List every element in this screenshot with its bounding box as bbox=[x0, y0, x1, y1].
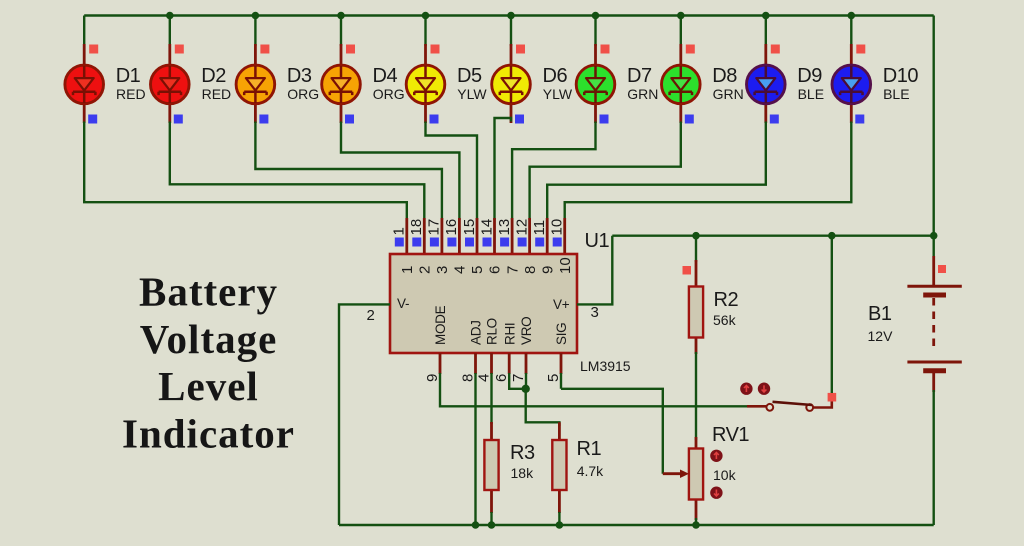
blue pin square at pin 18 bbox=[412, 238, 421, 247]
svg-text:1: 1 bbox=[391, 227, 408, 235]
svg-text:R1: R1 bbox=[577, 438, 602, 460]
svg-text:D10: D10 bbox=[883, 65, 919, 87]
svg-text:MODE: MODE bbox=[433, 305, 448, 345]
svg-text:5: 5 bbox=[545, 374, 562, 382]
wire: rail to LED D7 anode bbox=[594, 16, 596, 47]
wire: rail to LED D5 anode bbox=[424, 16, 426, 47]
svg-text:GRN: GRN bbox=[627, 86, 658, 102]
svg-text:V+: V+ bbox=[553, 297, 570, 312]
svg-text:10: 10 bbox=[549, 219, 566, 236]
svg-text:D1: D1 bbox=[116, 65, 141, 87]
svg-text:12: 12 bbox=[513, 219, 530, 236]
node: R3 at ground rail bbox=[488, 521, 496, 529]
svg-text:8: 8 bbox=[522, 266, 539, 274]
svg-text:R2: R2 bbox=[714, 289, 739, 311]
battery B1 12V bbox=[907, 256, 961, 392]
svg-text:7: 7 bbox=[510, 374, 527, 382]
node: R1 at ground rail bbox=[556, 521, 564, 529]
svg-text:12V: 12V bbox=[868, 328, 894, 344]
IC pin stub 9 (bottom, MODE) bbox=[439, 353, 442, 374]
wire: R2 bottom to RV1 top bbox=[695, 352, 697, 440]
wire: right vertical from top rail down to V+ rail bbox=[933, 16, 935, 236]
wire: LED D10 cathode to IC pin column bbox=[565, 122, 852, 221]
IC pin stub 4 (bottom, RLO) bbox=[490, 353, 493, 374]
wire: rail to LED D10 anode bbox=[850, 16, 852, 47]
svg-text:D6: D6 bbox=[543, 65, 568, 87]
wire: VRO pin 7 down to node bbox=[525, 373, 527, 389]
wire: RV1 to ground rail bbox=[695, 518, 697, 525]
svg-text:14: 14 bbox=[478, 219, 495, 236]
svg-text:4.7k: 4.7k bbox=[577, 463, 604, 479]
node: V+ rail at R2 bbox=[692, 232, 700, 240]
IC pin stub 8 (bottom, ADJ) bbox=[474, 353, 477, 374]
red pin square at battery top bbox=[938, 265, 946, 273]
switch SW (mode select) bbox=[747, 399, 832, 411]
red pin square above D9 bbox=[771, 45, 780, 54]
node: top rail junction at D9 bbox=[762, 12, 770, 20]
blue pin square below D5 bbox=[430, 115, 439, 124]
wire: R1 to ground rail bbox=[558, 512, 560, 525]
wire: V+ horizontal rail bbox=[612, 234, 933, 236]
RV1 actuator button up bbox=[710, 450, 722, 462]
IC pin stub 17 (top) bbox=[440, 218, 443, 254]
red pin square above D10 bbox=[856, 45, 865, 54]
LED D9 BLE bbox=[747, 44, 786, 123]
svg-text:16: 16 bbox=[443, 219, 460, 236]
LED D2 RED bbox=[151, 44, 190, 123]
node: top rail junction at D7 bbox=[592, 12, 600, 20]
svg-text:U1: U1 bbox=[585, 230, 610, 252]
blue pin square at pin 11 bbox=[535, 238, 544, 247]
IC pin stub 10 (top) bbox=[563, 218, 566, 254]
LED D8 GRN bbox=[662, 44, 701, 123]
LED D6 YLW bbox=[492, 44, 531, 123]
svg-text:VRO: VRO bbox=[519, 317, 534, 345]
IC pin stub 7 (bottom, VRO) bbox=[525, 353, 528, 374]
wire: ADJ pin 8 to ground rail bbox=[474, 373, 476, 525]
node: ADJ at ground rail bbox=[472, 521, 480, 529]
blue pin square below D2 bbox=[174, 115, 183, 124]
svg-text:RLO: RLO bbox=[485, 318, 500, 345]
blue pin square below D10 bbox=[855, 115, 864, 124]
wire: rail to LED D1 anode bbox=[83, 16, 85, 47]
wire: V- pin 2 to ground rail bbox=[339, 304, 390, 525]
wire: V+ rail down to R2 bbox=[695, 236, 697, 262]
svg-text:11: 11 bbox=[531, 220, 548, 236]
svg-text:9: 9 bbox=[539, 266, 556, 274]
resistor R3 18k bbox=[484, 422, 498, 513]
svg-text:D8: D8 bbox=[712, 65, 737, 87]
svg-text:D3: D3 bbox=[287, 65, 312, 87]
IC pin stub 1 (top) bbox=[405, 218, 408, 254]
svg-text:Battery: Battery bbox=[139, 269, 278, 315]
wire: VRO node down to R1 bbox=[526, 389, 560, 426]
IC pin stub 5 (bottom, SIG) bbox=[560, 353, 563, 374]
wire: LED D4 cathode to IC pin column bbox=[341, 122, 459, 221]
LED D4 ORG bbox=[322, 44, 361, 123]
node: top rail junction at D3 bbox=[252, 12, 260, 20]
wire: battery to ground rail bbox=[933, 390, 935, 525]
svg-text:SIG: SIG bbox=[554, 323, 569, 345]
blue pin square below D1 bbox=[88, 115, 97, 124]
svg-text:RHI: RHI bbox=[502, 323, 517, 345]
node: VRO/RHI junction bbox=[522, 385, 530, 393]
IC pin stub 11 (top) bbox=[546, 218, 549, 254]
svg-text:6: 6 bbox=[487, 266, 504, 274]
red pin square above D2 bbox=[175, 45, 184, 54]
wire: RHI pin 6 to VRO node bbox=[509, 373, 526, 389]
svg-text:56k: 56k bbox=[713, 312, 737, 328]
svg-text:10: 10 bbox=[557, 257, 574, 274]
blue pin square below D4 bbox=[345, 115, 354, 124]
node: top rail junction at D10 bbox=[848, 12, 856, 20]
node: V+ rail at switch column bbox=[828, 232, 836, 240]
svg-text:18: 18 bbox=[408, 219, 425, 236]
wire: rail to LED D2 anode bbox=[169, 16, 171, 47]
wire: V+ pin 3 up to V+ rail bbox=[577, 236, 612, 305]
wire: rail to LED D8 anode bbox=[680, 16, 682, 47]
wire: V+ rail down to battery bbox=[933, 236, 935, 258]
svg-text:D7: D7 bbox=[627, 65, 652, 87]
svg-text:3: 3 bbox=[591, 304, 599, 321]
svg-text:D5: D5 bbox=[457, 65, 482, 87]
LED D1 RED bbox=[65, 44, 104, 123]
svg-text:3: 3 bbox=[434, 266, 451, 274]
IC pin stub 6 (bottom, RHI) bbox=[508, 353, 511, 374]
wire: top anode rail from D1 to right corner bbox=[84, 14, 934, 16]
resistor R1 4.7k bbox=[552, 422, 566, 513]
svg-text:10k: 10k bbox=[713, 467, 737, 483]
IC pin stub 14 (top) bbox=[493, 218, 496, 254]
node: top rail junction at D4 bbox=[337, 12, 345, 20]
red pin square above D5 bbox=[431, 45, 440, 54]
wire: rail to LED D3 anode bbox=[254, 16, 256, 47]
wire: MODE pin 9 to switch bbox=[440, 373, 747, 406]
red pin square above D1 bbox=[89, 45, 98, 54]
node: RV1 at ground rail bbox=[692, 521, 700, 529]
svg-text:YLW: YLW bbox=[457, 86, 487, 102]
LED D5 YLW bbox=[406, 44, 445, 123]
blue pin square at pin 12 bbox=[518, 238, 527, 247]
blue pin square at pin 17 bbox=[430, 238, 439, 247]
red pin square above D4 bbox=[346, 45, 355, 54]
blue pin square at pin 13 bbox=[500, 238, 509, 247]
LED D10 BLE bbox=[832, 44, 871, 123]
RV1 actuator button down bbox=[710, 487, 722, 499]
red pin square above D8 bbox=[686, 45, 695, 54]
svg-text:ADJ: ADJ bbox=[469, 320, 484, 345]
blue pin square below D7 bbox=[600, 115, 609, 124]
svg-text:BLE: BLE bbox=[798, 86, 824, 102]
svg-text:7: 7 bbox=[504, 266, 521, 274]
blue pin square below D8 bbox=[685, 115, 694, 124]
svg-text:V-: V- bbox=[397, 296, 409, 311]
svg-text:ORG: ORG bbox=[373, 86, 405, 102]
svg-text:Voltage: Voltage bbox=[140, 316, 278, 362]
svg-text:BLE: BLE bbox=[883, 86, 909, 102]
wire: LED D3 cathode to IC pin column bbox=[255, 122, 442, 221]
node: top rail junction at D2 bbox=[166, 12, 174, 20]
svg-text:RED: RED bbox=[202, 86, 232, 102]
IC pin stub 16 (top) bbox=[458, 218, 461, 254]
svg-text:D4: D4 bbox=[373, 65, 398, 87]
blue pin square below D3 bbox=[259, 115, 268, 124]
blue pin square below D6 bbox=[515, 115, 524, 124]
node: top rail junction at D6 bbox=[507, 12, 515, 20]
node: top rail junction at D8 bbox=[677, 12, 685, 20]
LED D3 ORG bbox=[236, 44, 275, 123]
wire: SIG pin 5 to RV1 wiper bbox=[561, 373, 663, 474]
svg-text:RV1: RV1 bbox=[712, 424, 749, 446]
svg-text:B1: B1 bbox=[868, 303, 892, 325]
IC pin stub 13 (top) bbox=[511, 218, 514, 254]
blue pin square at pin 10 bbox=[553, 238, 562, 247]
blue pin square at pin 15 bbox=[465, 238, 474, 247]
svg-text:D2: D2 bbox=[201, 65, 226, 87]
svg-text:ORG: ORG bbox=[287, 86, 319, 102]
svg-text:17: 17 bbox=[426, 219, 443, 236]
svg-text:D9: D9 bbox=[797, 65, 822, 87]
red pin square at R2 top bbox=[683, 266, 692, 275]
node: V+ rail at battery column bbox=[930, 232, 938, 240]
svg-text:GRN: GRN bbox=[713, 86, 744, 102]
IC pin stub 15 (top) bbox=[476, 218, 479, 254]
wire: bottom ground rail bbox=[339, 524, 934, 526]
op-amp / IC U1 LM3915 body bbox=[390, 254, 577, 353]
resistor R2 56k bbox=[689, 260, 703, 354]
red pin square above D3 bbox=[260, 45, 269, 54]
red pin square at switch output bbox=[828, 393, 837, 402]
red pin square above D6 bbox=[516, 45, 525, 54]
svg-text:YLW: YLW bbox=[543, 86, 573, 102]
title text: Battery Voltage Level Indicator bbox=[122, 269, 295, 457]
svg-text:9: 9 bbox=[424, 374, 441, 382]
switch actuator button right bbox=[758, 383, 770, 395]
svg-text:1: 1 bbox=[399, 266, 416, 274]
wire: LED D8 cathode to IC pin column bbox=[530, 122, 681, 221]
svg-text:Level: Level bbox=[158, 363, 259, 409]
IC pin stub 18 (top) bbox=[423, 218, 426, 254]
svg-text:RED: RED bbox=[116, 86, 146, 102]
wire: rail to LED D6 anode bbox=[510, 16, 512, 47]
svg-text:18k: 18k bbox=[511, 465, 535, 481]
IC pin stub 12 (top) bbox=[528, 218, 531, 254]
wire: rail to LED D9 anode bbox=[765, 16, 767, 47]
wire: switch up to V+ rail bbox=[831, 236, 833, 393]
svg-text:4: 4 bbox=[452, 266, 469, 274]
wire: LED D2 cathode to IC pin column bbox=[170, 122, 424, 221]
wire: LED D7 cathode to IC pin column bbox=[512, 122, 595, 221]
wire: LED D9 cathode to IC pin column bbox=[547, 122, 766, 221]
blue pin square at pin 16 bbox=[447, 238, 456, 247]
svg-text:R3: R3 bbox=[510, 442, 535, 464]
node: top rail junction at D5 bbox=[422, 12, 430, 20]
wire: LED D5 cathode to IC pin column bbox=[426, 122, 478, 221]
blue pin square at pin 14 bbox=[483, 238, 492, 247]
LED D7 GRN bbox=[576, 44, 615, 123]
svg-text:13: 13 bbox=[496, 219, 513, 236]
svg-text:15: 15 bbox=[461, 219, 478, 236]
svg-text:LM3915: LM3915 bbox=[580, 358, 631, 374]
svg-text:6: 6 bbox=[493, 374, 510, 382]
potentiometer RV1 10k bbox=[663, 437, 703, 520]
blue pin square at pin 1 bbox=[395, 238, 404, 247]
svg-text:Indicator: Indicator bbox=[122, 410, 295, 456]
wire: LED D1 cathode to IC pin column bbox=[84, 122, 407, 221]
wire: R3 to ground rail bbox=[490, 512, 492, 525]
wire: LED D6 cathode to IC pin column bbox=[495, 118, 512, 220]
blue pin square below D9 bbox=[770, 115, 779, 124]
svg-text:5: 5 bbox=[469, 266, 486, 274]
wire: rail to LED D4 anode bbox=[340, 16, 342, 47]
svg-text:2: 2 bbox=[417, 266, 434, 274]
svg-text:8: 8 bbox=[460, 374, 477, 382]
wire: RLO pin 4 down to R3 bbox=[490, 373, 492, 424]
red pin square above D7 bbox=[601, 45, 610, 54]
svg-text:4: 4 bbox=[476, 374, 493, 382]
svg-text:2: 2 bbox=[367, 307, 375, 324]
switch actuator button left bbox=[740, 383, 752, 395]
